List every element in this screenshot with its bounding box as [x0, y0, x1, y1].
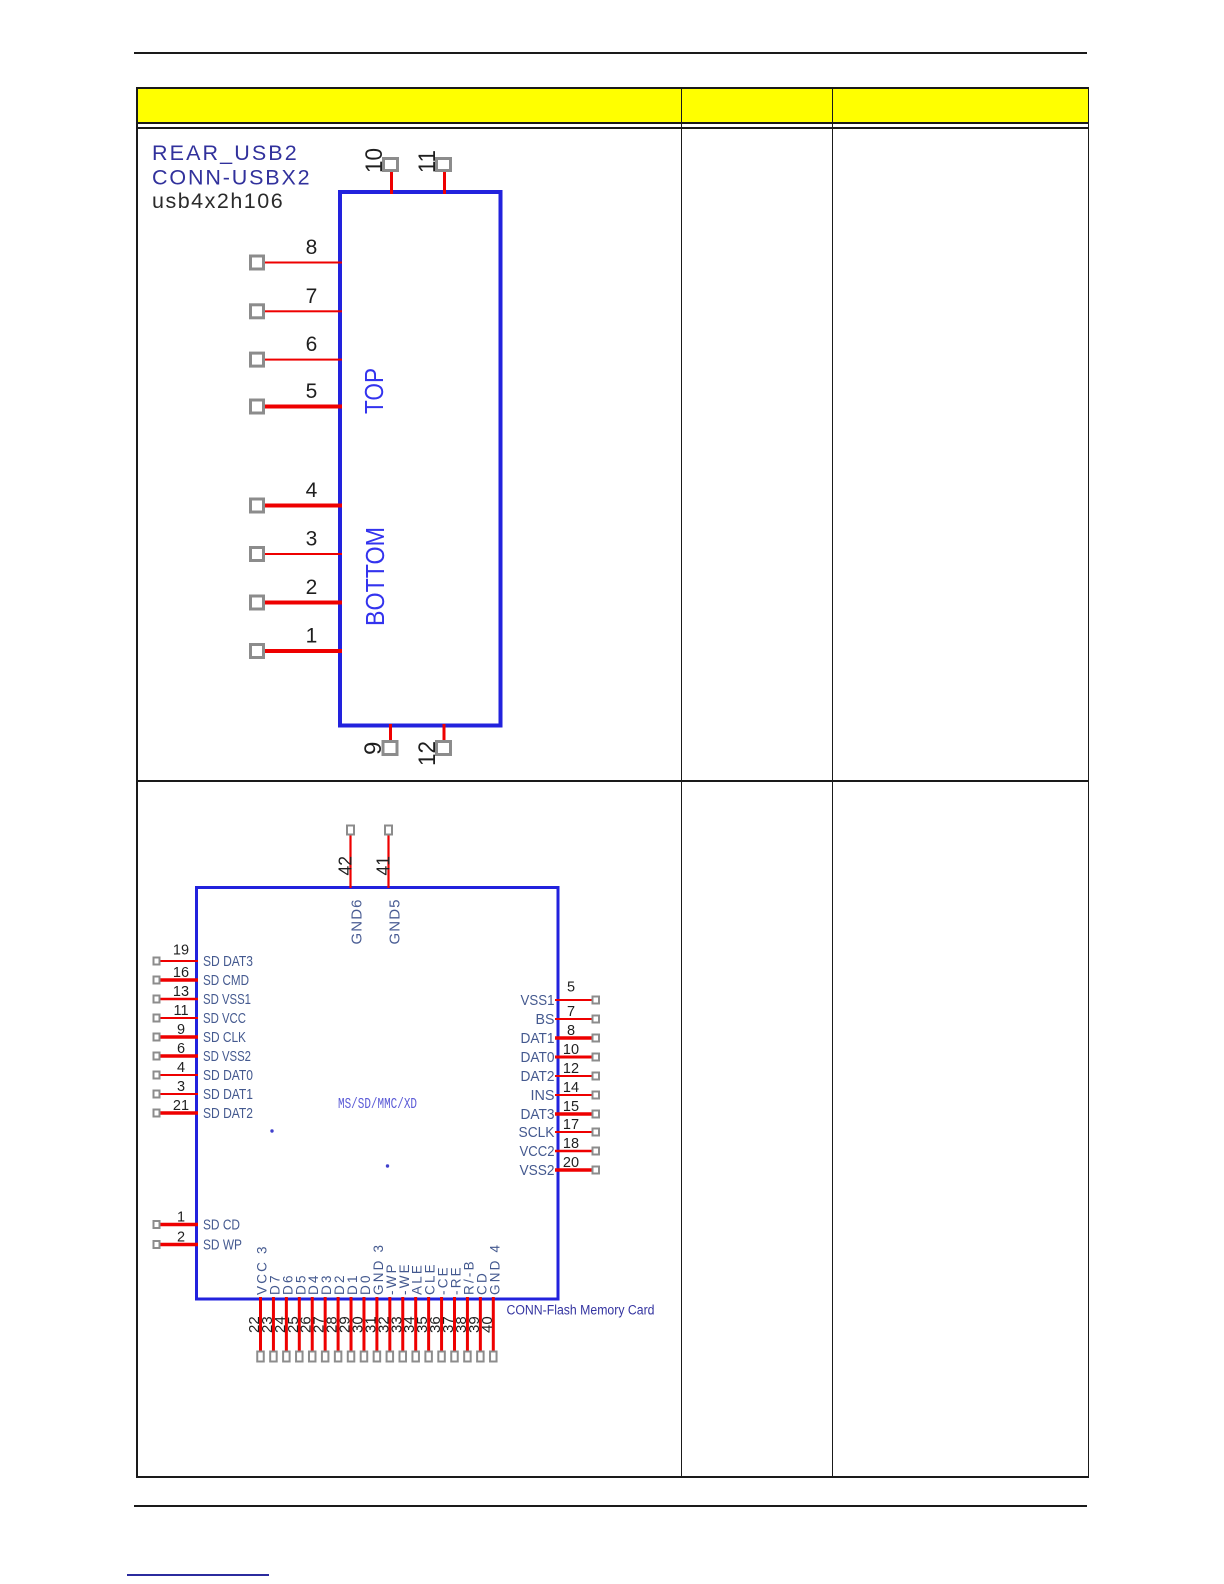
- pad pin 12: [593, 1073, 600, 1080]
- wire pin 31 (GND 3): [375, 1297, 378, 1352]
- pin name DAT3: [521, 1106, 555, 1123]
- pad pin 6: [154, 1053, 160, 1060]
- svg-text:5: 5: [567, 980, 575, 996]
- table right border: [1088, 87, 1090, 1478]
- pin name SD CLK: [203, 1029, 246, 1046]
- pad pin 11: [437, 159, 451, 171]
- pin number 35: [414, 1316, 431, 1333]
- pin name CLE: [423, 1262, 438, 1295]
- wire pin 8: [265, 262, 342, 264]
- svg-text:41: 41: [374, 856, 394, 876]
- pin name D0: [358, 1273, 373, 1295]
- pin number 3: [306, 528, 318, 551]
- wire pin 10: [390, 171, 393, 194]
- header lower thin line: [136, 127, 1089, 129]
- pad pin 37: [451, 1352, 458, 1362]
- wire pin 32 (-WP): [388, 1297, 391, 1352]
- wire pin 9: [389, 724, 392, 742]
- svg-text:7: 7: [567, 1004, 575, 1020]
- svg-text:SD VSS2: SD VSS2: [203, 1048, 251, 1065]
- wire pin 9 (SD CLK): [161, 1035, 199, 1039]
- wire pin 28 (D2): [337, 1297, 340, 1352]
- pin name DAT0: [521, 1049, 555, 1066]
- svg-text:MS/SD/MMC/XD: MS/SD/MMC/XD: [338, 1097, 417, 1113]
- wire pin 15 (DAT3): [555, 1112, 592, 1116]
- pin name D3: [319, 1273, 334, 1295]
- pin number 10: [563, 1042, 579, 1058]
- pin number 4: [177, 1060, 185, 1076]
- pad pin 9: [383, 742, 397, 755]
- pad pin 28: [335, 1352, 342, 1362]
- svg-text:16: 16: [173, 965, 189, 981]
- pad pin 33: [400, 1352, 407, 1362]
- svg-text:4: 4: [177, 1060, 185, 1076]
- wire pin 19 (SD DAT3): [161, 960, 199, 962]
- connector J2 CONN-Flash Memory Card schematic: [137, 781, 697, 1477]
- wire pin 14 (INS): [555, 1094, 592, 1096]
- pin number 24: [272, 1316, 289, 1333]
- svg-text:10: 10: [563, 1042, 579, 1058]
- wire pin 1 (SD CD): [161, 1223, 199, 1227]
- pin number 40: [479, 1316, 496, 1333]
- pad pin 20: [593, 1167, 600, 1174]
- pin number 19: [173, 943, 189, 959]
- svg-text:1: 1: [306, 625, 318, 648]
- pin name SD DAT3: [203, 953, 253, 970]
- pin name DAT1: [521, 1030, 555, 1047]
- svg-text:GND 4: GND 4: [487, 1243, 502, 1295]
- svg-text:18: 18: [563, 1136, 579, 1152]
- pad pin 9: [154, 1034, 160, 1041]
- pad pin 17: [593, 1129, 600, 1136]
- wire pin 30 (D0): [362, 1297, 365, 1352]
- svg-text:3: 3: [306, 528, 318, 551]
- svg-text:DAT2: DAT2: [521, 1068, 555, 1085]
- pin number 1: [306, 625, 318, 648]
- pad pin 41: [385, 826, 392, 835]
- pin name R/-B: [461, 1259, 476, 1295]
- pad pin 1: [154, 1221, 160, 1228]
- part label MS/SD/MMC/XD: [338, 1097, 417, 1113]
- svg-text:TOP: TOP: [359, 368, 389, 414]
- pad pin 14: [593, 1092, 600, 1099]
- wire pin 11: [443, 171, 446, 194]
- pad pin 32: [387, 1352, 394, 1362]
- top page rule: [134, 52, 1087, 54]
- svg-text:DAT1: DAT1: [521, 1030, 555, 1047]
- svg-text:2: 2: [306, 576, 318, 599]
- svg-text:BS: BS: [536, 1011, 555, 1028]
- pin number 42: [336, 856, 356, 876]
- pin number 20: [563, 1155, 579, 1171]
- svg-text:SD DAT0: SD DAT0: [203, 1067, 253, 1084]
- svg-text:GND5: GND5: [387, 898, 404, 944]
- wire pin 40 (GND 4): [492, 1297, 495, 1352]
- svg-text:4: 4: [306, 479, 318, 502]
- svg-text:8: 8: [567, 1023, 575, 1039]
- pad pin 35: [425, 1352, 432, 1362]
- wire pin 17 (SCLK): [555, 1131, 592, 1133]
- pin name -RE: [448, 1265, 463, 1295]
- pin name GND6: [349, 898, 366, 944]
- svg-text:SD CLK: SD CLK: [203, 1029, 246, 1046]
- svg-text:GND6: GND6: [349, 898, 366, 944]
- wire pin 36 (-CE): [440, 1297, 443, 1352]
- net label REAR_USB2: [152, 141, 299, 165]
- pin number 33: [388, 1316, 405, 1333]
- wire pin 7: [265, 310, 342, 312]
- svg-text:CONN-USBX2: CONN-USBX2: [152, 166, 311, 190]
- svg-text:SD VCC: SD VCC: [203, 1010, 246, 1027]
- pin number 23: [259, 1316, 276, 1333]
- pad pin 15: [593, 1111, 600, 1118]
- svg-text:VSS2: VSS2: [520, 1162, 555, 1179]
- wire pin 38 (R/-B): [466, 1297, 469, 1352]
- wire pin 2: [265, 601, 342, 605]
- pad pin 38: [464, 1352, 471, 1362]
- pin number 5: [567, 980, 575, 996]
- svg-text:SD DAT2: SD DAT2: [203, 1105, 253, 1122]
- pin number 2: [177, 1230, 185, 1246]
- table column line 1: [681, 87, 682, 1478]
- pin number 9: [360, 742, 387, 755]
- pin name SD CD: [203, 1217, 240, 1234]
- wire pin 3: [265, 553, 342, 555]
- svg-text:SD CD: SD CD: [203, 1217, 240, 1234]
- svg-text:11: 11: [414, 150, 441, 173]
- pad pin 6: [251, 353, 264, 366]
- svg-text:CONN-Flash Memory Card: CONN-Flash Memory Card: [507, 1303, 655, 1318]
- pin name SD CMD: [203, 972, 249, 989]
- pin number 5: [306, 380, 318, 403]
- svg-text:17: 17: [563, 1117, 579, 1133]
- pad pin 29: [348, 1352, 355, 1362]
- pad pin 5: [593, 997, 600, 1004]
- connector J1 REAR_USB2 CONN-USBX2 schematic: [137, 128, 697, 781]
- pin number 27: [311, 1316, 328, 1333]
- pad pin 31: [374, 1352, 381, 1362]
- wire pin 27 (D3): [324, 1297, 327, 1352]
- pad pin 16: [154, 977, 160, 984]
- pin number 17: [563, 1117, 579, 1133]
- svg-text:INS: INS: [531, 1087, 555, 1104]
- table bottom border: [136, 1476, 1089, 1478]
- pad pin 13: [154, 996, 160, 1003]
- pin name D7: [267, 1273, 282, 1295]
- pin name SD VCC: [203, 1010, 246, 1027]
- pin number 12: [414, 741, 441, 766]
- svg-text:6: 6: [177, 1041, 185, 1057]
- wire pin 18 (VCC2): [555, 1150, 592, 1153]
- bottom-left blue underline: [127, 1574, 269, 1576]
- pad pin 19: [154, 958, 160, 965]
- svg-text:usb4x2h106: usb4x2h106: [152, 189, 284, 213]
- pin number 25: [285, 1316, 302, 1333]
- pin name VCC2: [520, 1143, 555, 1160]
- pad pin 12: [437, 742, 451, 755]
- wire pin 33 (-WE): [401, 1297, 404, 1352]
- pin name VCC 3: [255, 1244, 270, 1295]
- pad pin 1: [251, 645, 264, 658]
- pad pin 10: [593, 1054, 600, 1061]
- pin number 8: [306, 236, 318, 259]
- pad pin 39: [477, 1352, 484, 1362]
- svg-text:1: 1: [177, 1210, 185, 1226]
- part name CONN-Flash Memory Card: [507, 1303, 655, 1318]
- pin number 32: [375, 1316, 392, 1333]
- wire pin 22 (VCC 3): [259, 1297, 262, 1352]
- pin number 28: [324, 1316, 341, 1333]
- svg-text:5: 5: [306, 380, 318, 403]
- svg-text:14: 14: [563, 1080, 579, 1096]
- wire pin 2 (SD WP): [161, 1243, 199, 1247]
- svg-text:REAR_USB2: REAR_USB2: [152, 141, 299, 165]
- wire pin 23 (D7): [272, 1297, 275, 1352]
- wire pin 13 (SD VSS1): [161, 998, 199, 1001]
- pin name ALE: [410, 1263, 425, 1295]
- pin name VSS2: [520, 1162, 555, 1179]
- pin number 11: [414, 150, 441, 173]
- svg-text:SD DAT1: SD DAT1: [203, 1086, 253, 1103]
- pad pin 40: [490, 1352, 497, 1362]
- pad pin 3: [154, 1091, 160, 1098]
- wire pin 24 (D6): [285, 1297, 288, 1352]
- pin number 31: [362, 1316, 379, 1333]
- wire pin 37 (-RE): [453, 1297, 456, 1352]
- svg-text:7: 7: [306, 285, 318, 308]
- pin number 37: [440, 1316, 457, 1333]
- wire pin 8 (DAT1): [555, 1036, 592, 1040]
- pad pin 10: [384, 159, 398, 171]
- wire pin 39 (CD): [479, 1297, 482, 1352]
- pad pin 42: [347, 826, 354, 835]
- pin name D6: [280, 1273, 295, 1295]
- svg-text:15: 15: [563, 1099, 579, 1115]
- pin number 7: [567, 1004, 575, 1020]
- pad pin 5: [251, 400, 264, 413]
- pin name -WE: [397, 1262, 412, 1295]
- pin number 6: [177, 1041, 185, 1057]
- pad pin 4: [251, 499, 264, 512]
- pin name D2: [332, 1273, 347, 1295]
- pad pin 26: [309, 1352, 316, 1362]
- svg-text:11: 11: [173, 1003, 188, 1019]
- wire pin 16 (SD CMD): [161, 978, 199, 982]
- table column line 2: [832, 87, 833, 1478]
- pin number 12: [563, 1061, 579, 1077]
- svg-text:VCC2: VCC2: [520, 1143, 555, 1160]
- pin number 18: [563, 1136, 579, 1152]
- pin name SD DAT0: [203, 1067, 253, 1084]
- pin number 1: [177, 1210, 185, 1226]
- wire pin 25 (D5): [298, 1297, 301, 1352]
- wire pin 5: [265, 405, 342, 409]
- wire pin 5 (VSS1): [555, 999, 592, 1001]
- wire pin 7 (BS): [555, 1018, 592, 1020]
- node dot B: [386, 1164, 389, 1167]
- svg-text:DAT3: DAT3: [521, 1106, 555, 1123]
- pin number 7: [306, 285, 318, 308]
- pad pin 30: [361, 1352, 368, 1362]
- wire pin 41: [387, 834, 389, 888]
- pad pin 2: [154, 1241, 160, 1248]
- svg-text:SD CMD: SD CMD: [203, 972, 249, 989]
- pin name VSS1: [521, 992, 555, 1009]
- pin number 10: [361, 148, 388, 173]
- svg-text:SCLK: SCLK: [519, 1124, 555, 1141]
- pin number 15: [563, 1099, 579, 1115]
- pin name BS: [536, 1011, 555, 1028]
- table outer top border: [136, 87, 1089, 89]
- pin name SCLK: [519, 1124, 555, 1141]
- svg-text:3: 3: [177, 1079, 185, 1095]
- pad pin 22: [257, 1352, 264, 1362]
- pin name SD VSS1: [203, 991, 251, 1008]
- label TOP: [359, 368, 389, 414]
- wire pin 29 (D1): [350, 1297, 353, 1352]
- pad pin 36: [438, 1352, 445, 1362]
- pad pin 34: [412, 1352, 419, 1362]
- pin number 16: [173, 965, 189, 981]
- wire pin 12 (DAT2): [555, 1075, 592, 1077]
- svg-text:12: 12: [563, 1061, 579, 1077]
- pad pin 27: [322, 1352, 329, 1362]
- pin name CD: [474, 1271, 489, 1295]
- pin name SD WP: [203, 1237, 242, 1254]
- wire pin 20 (VSS2): [555, 1168, 592, 1172]
- pad pin 18: [593, 1148, 600, 1155]
- table left border: [136, 87, 138, 1478]
- pin name DAT2: [521, 1068, 555, 1085]
- row separator line: [136, 780, 1089, 782]
- svg-text:10: 10: [361, 148, 388, 173]
- pin name GND 4: [487, 1243, 502, 1295]
- wire pin 26 (D4): [311, 1297, 314, 1352]
- pin number 34: [401, 1316, 418, 1333]
- pin name D4: [306, 1273, 321, 1295]
- connector body J2: [197, 888, 559, 1300]
- pad pin 8: [593, 1035, 600, 1042]
- pin name GND 3: [371, 1243, 386, 1295]
- pin number 8: [567, 1023, 575, 1039]
- wire pin 11 (SD VCC): [161, 1017, 199, 1019]
- pad pin 11: [154, 1015, 160, 1022]
- svg-text:SD DAT3: SD DAT3: [203, 953, 253, 970]
- pin number 6: [306, 333, 318, 356]
- svg-text:12: 12: [414, 741, 441, 766]
- svg-text:BOTTOM: BOTTOM: [360, 527, 390, 626]
- wire pin 3 (SD DAT1): [161, 1093, 199, 1095]
- pad pin 8: [251, 256, 264, 269]
- pin name SD DAT1: [203, 1086, 253, 1103]
- label BOTTOM: [360, 527, 390, 626]
- header bottom thick line: [136, 122, 1089, 124]
- pad pin 21: [154, 1110, 160, 1117]
- wire pin 42: [349, 834, 351, 888]
- connector body J1: [340, 192, 501, 726]
- pad pin 7: [251, 305, 264, 318]
- svg-text:19: 19: [173, 943, 189, 959]
- pad pin 2: [251, 596, 264, 609]
- wire pin 21 (SD DAT2): [161, 1111, 199, 1115]
- svg-text:2: 2: [177, 1230, 185, 1246]
- svg-text:SD WP: SD WP: [203, 1237, 242, 1254]
- wire pin 4: [265, 504, 342, 508]
- pin number 26: [298, 1316, 315, 1333]
- pin name -WP: [384, 1262, 399, 1295]
- pad pin 7: [593, 1016, 600, 1023]
- pin number 39: [466, 1316, 483, 1333]
- svg-text:21: 21: [173, 1098, 189, 1114]
- pin number 41: [374, 856, 394, 876]
- svg-text:42: 42: [336, 856, 356, 876]
- wire pin 10 (DAT0): [555, 1056, 592, 1059]
- wire pin 12: [443, 724, 446, 742]
- wire pin 4 (SD DAT0): [161, 1074, 199, 1076]
- pin number 4: [306, 479, 318, 502]
- pin name -CE: [436, 1265, 451, 1295]
- pin name SD VSS2: [203, 1048, 251, 1065]
- pin name D5: [293, 1273, 308, 1295]
- pin name GND5: [387, 898, 404, 944]
- svg-text:SD VSS1: SD VSS1: [203, 991, 251, 1008]
- wire pin 6 (SD VSS2): [161, 1054, 199, 1058]
- pin name SD DAT2: [203, 1105, 253, 1122]
- pad pin 3: [251, 548, 264, 561]
- pad pin 23: [270, 1352, 277, 1362]
- pin number 36: [427, 1316, 444, 1333]
- pin number 9: [177, 1022, 185, 1038]
- footprint label usb4x2h106: [152, 189, 284, 213]
- bottom page rule: [134, 1505, 1087, 1507]
- svg-text:DAT0: DAT0: [521, 1049, 555, 1066]
- pin name D1: [345, 1273, 360, 1295]
- pin number 30: [349, 1316, 366, 1333]
- svg-text:8: 8: [306, 236, 318, 259]
- svg-text:40: 40: [479, 1316, 496, 1333]
- pin name INS: [531, 1087, 555, 1104]
- pin number 38: [453, 1316, 470, 1333]
- pin number 22: [246, 1316, 263, 1333]
- pin number 11: [173, 1003, 188, 1019]
- svg-text:20: 20: [563, 1155, 579, 1171]
- node dot A: [270, 1129, 273, 1132]
- svg-text:6: 6: [306, 333, 318, 356]
- pin number 14: [563, 1080, 579, 1096]
- svg-text:VSS1: VSS1: [521, 992, 555, 1009]
- pin number 3: [177, 1079, 185, 1095]
- wire pin 34 (ALE): [414, 1297, 417, 1352]
- pin number 29: [337, 1316, 354, 1333]
- svg-text:13: 13: [173, 984, 189, 1000]
- pin number 2: [306, 576, 318, 599]
- value label CONN-USBX2: [152, 166, 311, 190]
- pin number 21: [173, 1098, 189, 1114]
- svg-text:9: 9: [177, 1022, 185, 1038]
- pad pin 24: [283, 1352, 290, 1362]
- wire pin 1: [265, 649, 342, 653]
- pad pin 4: [154, 1072, 160, 1079]
- wire pin 35 (CLE): [427, 1297, 430, 1352]
- wire pin 6: [265, 359, 342, 361]
- pad pin 25: [296, 1352, 303, 1362]
- table header yellow band: [137, 88, 1088, 122]
- pin number 13: [173, 984, 189, 1000]
- svg-text:9: 9: [360, 742, 387, 755]
